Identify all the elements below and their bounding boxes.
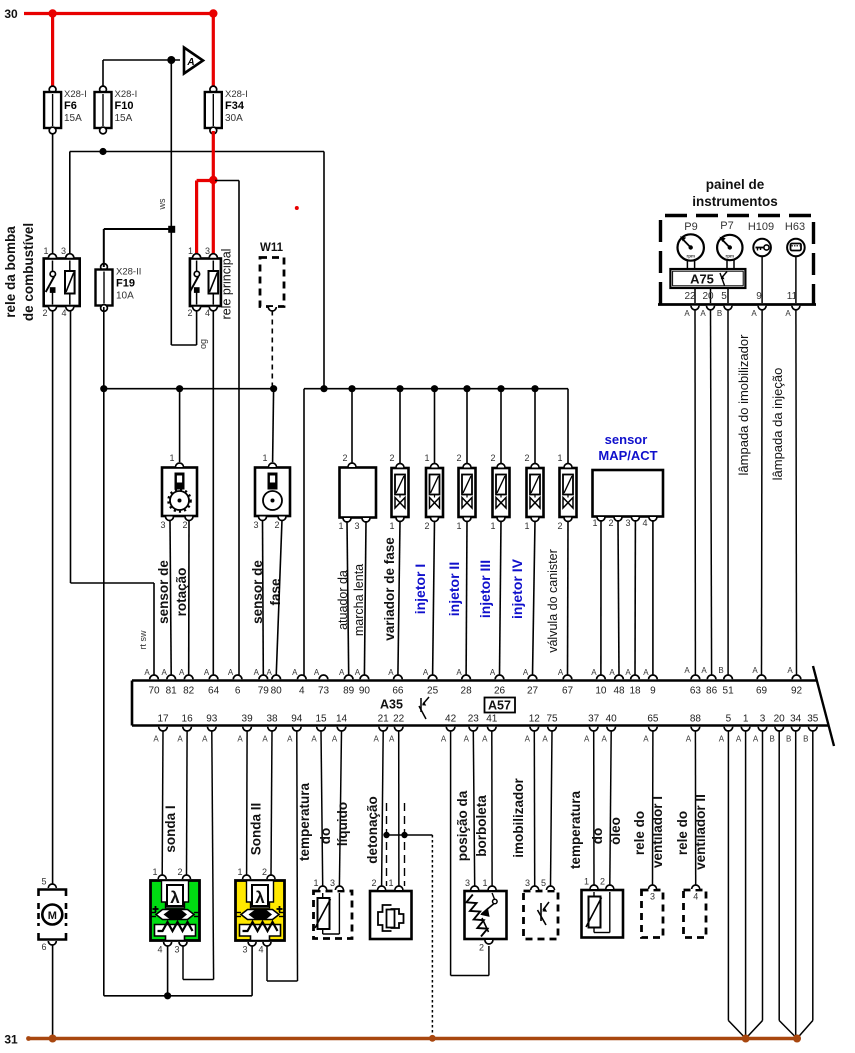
junction shield right: [401, 832, 407, 838]
wire bus388 to injetor III: [500, 389, 502, 463]
svg-text:90: 90: [359, 686, 371, 697]
svg-text:2: 2: [424, 521, 429, 531]
svg-text:A: A: [584, 735, 590, 744]
wire pin88 to rele ventilador II: [694, 731, 696, 886]
svg-text:A: A: [558, 668, 564, 677]
svg-text:4: 4: [693, 892, 698, 902]
svg-text:80: 80: [271, 686, 283, 697]
svg-text:2: 2: [456, 453, 461, 463]
svg-text:A: A: [204, 668, 210, 677]
svg-text:Sonda II: Sonda II: [249, 803, 264, 856]
junction bus388/W11: [270, 385, 277, 392]
fuse F34 30A: [210, 86, 217, 93]
wire ws vertical: [170, 60, 172, 229]
sensor posicao da borboleta (TPS): [465, 891, 507, 939]
relay rele do ventilador I: [642, 890, 664, 938]
wire rele bomba pin 2 to fuel pump: [52, 310, 54, 884]
wire injetor III to pin 26: [500, 521, 502, 677]
wire pin38 to sonda II pin 2: [271, 731, 272, 875]
svg-text:A: A: [751, 309, 757, 318]
wire bus y151: [70, 151, 324, 153]
svg-text:B: B: [718, 666, 723, 675]
wire P9 to A75: [686, 260, 688, 269]
svg-text:3: 3: [61, 246, 66, 256]
junction bus388/injetor IV: [531, 385, 538, 392]
svg-text:A: A: [602, 735, 608, 744]
svg-text:A: A: [643, 735, 649, 744]
svg-text:instrumentos: instrumentos: [692, 194, 778, 209]
svg-text:5: 5: [721, 291, 727, 302]
svg-text:rele do: rele do: [632, 811, 647, 855]
svg-text:25: 25: [427, 686, 439, 697]
svg-text:1: 1: [482, 878, 487, 888]
harness arrow right: [779, 1021, 797, 1039]
wire ws down to og corner: [170, 229, 172, 345]
svg-text:A: A: [464, 735, 470, 744]
junction sonda I pin 4: [164, 992, 171, 999]
svg-text:injetor II: injetor II: [446, 562, 462, 616]
svg-text:5: 5: [41, 877, 46, 887]
svg-text:21: 21: [378, 714, 390, 725]
svg-text:H109: H109: [748, 221, 774, 233]
svg-text:40: 40: [606, 714, 618, 725]
junction bus388/pin73: [320, 385, 327, 392]
svg-text:temperatura: temperatura: [568, 790, 583, 869]
svg-text:3: 3: [525, 878, 530, 888]
svg-text:injetor I: injetor I: [412, 564, 428, 615]
junction bus31 start: [26, 1036, 31, 1041]
wire rele principal frame to pin 6: [215, 180, 239, 182]
wire bus388 left: [104, 388, 274, 390]
svg-text:93: 93: [206, 714, 218, 725]
svg-text:A: A: [292, 668, 298, 677]
svg-text:A: A: [542, 735, 548, 744]
svg-text:P7: P7: [720, 220, 733, 232]
wire pin20 harness: [778, 731, 780, 1021]
wire MAP pin1 to pin 10: [600, 520, 602, 676]
svg-text:94: 94: [291, 714, 303, 725]
svg-text:A: A: [355, 668, 361, 677]
harness arrow left: [728, 1021, 745, 1039]
svg-text:10: 10: [595, 686, 607, 697]
wire pin5 harness: [727, 731, 729, 1021]
wire pin22 to detonacao pin 1: [398, 731, 400, 886]
wire bus388 to pin 4: [303, 389, 305, 676]
svg-text:rele do: rele do: [675, 811, 690, 855]
svg-text:imobilizador: imobilizador: [511, 778, 526, 858]
svg-text:3: 3: [174, 945, 179, 955]
wire A75 pin 22: [694, 288, 696, 303]
svg-text:A: A: [787, 666, 793, 675]
svg-text:88: 88: [690, 714, 702, 725]
fuse F19 10A: [101, 264, 108, 271]
svg-text:X28-I: X28-I: [64, 89, 87, 100]
module A75: [670, 269, 745, 288]
connector A35 top pins: [150, 675, 159, 679]
junction bus388/atuador: [348, 385, 355, 392]
svg-text:A: A: [701, 666, 707, 675]
svg-text:27: 27: [527, 686, 539, 697]
svg-text:79: 79: [258, 686, 270, 697]
sensor MAP/ACT B3: [593, 470, 664, 517]
svg-text:A: A: [684, 666, 690, 675]
svg-text:2: 2: [608, 518, 613, 528]
junction fuel pump on bus 31: [49, 1035, 57, 1043]
junction dot 30/F6: [48, 9, 56, 17]
wire variador to pin 66: [398, 521, 400, 677]
svg-text:37: 37: [588, 714, 600, 725]
svg-text:rotação: rotação: [174, 568, 189, 617]
svg-text:A: A: [332, 735, 338, 744]
svg-text:A: A: [287, 735, 293, 744]
svg-text:10A: 10A: [116, 291, 134, 302]
svg-text:1: 1: [743, 714, 749, 725]
wire sonda ground bus: [104, 995, 252, 997]
wire pin17 to sonda I pin 1: [161, 731, 164, 875]
svg-text:48: 48: [613, 686, 625, 697]
svg-text:A: A: [374, 735, 380, 744]
svg-text:λ: λ: [170, 888, 180, 907]
svg-text:1: 1: [524, 521, 529, 531]
svg-text:ws: ws: [157, 198, 167, 210]
svg-text:2: 2: [262, 867, 267, 877]
junction bus388/variador: [396, 385, 403, 392]
svg-text:A: A: [262, 735, 268, 744]
wire bus 30 (red): [24, 12, 214, 15]
svg-text:2: 2: [490, 453, 495, 463]
svg-text:A: A: [144, 668, 150, 677]
wire bus388 to injetor I: [434, 389, 436, 463]
wire pin1 harness: [745, 731, 747, 1037]
wire pin15 to temp liquido pin 1: [321, 731, 323, 886]
wire pin75 to imobilizador pin 5: [551, 731, 553, 886]
svg-text:4: 4: [299, 686, 305, 697]
wire bus151 to rele bomba pin 3: [69, 152, 71, 255]
svg-text:20: 20: [702, 291, 714, 302]
svg-text:X28-I: X28-I: [225, 89, 248, 100]
wire rele bomba pin 4 to pin 70: [70, 310, 72, 583]
wire MAP pin4 to pin 9: [652, 520, 654, 676]
svg-text:92: 92: [791, 686, 803, 697]
stray red dot: [295, 206, 299, 210]
svg-text:F34: F34: [225, 100, 245, 112]
junction ws/A: [167, 56, 175, 64]
svg-text:A: A: [686, 735, 692, 744]
wire sensor fase pin 3 to pin 79: [262, 520, 265, 676]
svg-text:12: 12: [529, 714, 541, 725]
wire sensor fase pin 2 to pin 80: [276, 520, 282, 676]
wire A75 pin 5: [727, 288, 729, 303]
wire pin39 to sonda II pin 1: [246, 731, 249, 875]
svg-text:A: A: [202, 735, 208, 744]
svg-text:31: 31: [4, 1033, 18, 1047]
wire pin94 to sonda II pin 4: [296, 731, 299, 981]
wire sonda II pin3 down: [251, 946, 253, 996]
svg-text:lâmpada do imobilizador: lâmpada do imobilizador: [736, 334, 751, 476]
wire 30 to F34 (red): [212, 14, 215, 89]
wire W11 to bus (dashed): [271, 311, 273, 388]
svg-text:23: 23: [468, 714, 480, 725]
svg-text:2: 2: [177, 867, 182, 877]
svg-text:P9: P9: [684, 221, 697, 233]
svg-text:2: 2: [389, 453, 394, 463]
wire bus 31 (brown): [27, 1037, 798, 1040]
svg-text:67: 67: [562, 686, 574, 697]
svg-text:A: A: [388, 668, 394, 677]
svg-text:2: 2: [342, 453, 347, 463]
wire rele principal pin 4 to pin 64: [212, 310, 214, 676]
svg-text:A: A: [525, 735, 531, 744]
svg-text:6: 6: [235, 686, 241, 697]
svg-text:A: A: [339, 668, 345, 677]
fuel pump M: [39, 890, 67, 897]
svg-text:3: 3: [160, 520, 165, 530]
injector injetor IV: [527, 468, 544, 517]
svg-text:temperatura: temperatura: [297, 782, 312, 861]
svg-text:A: A: [254, 668, 260, 677]
wire pin12 to imobilizador pin 3: [533, 731, 535, 886]
wire F10 to node A: [102, 60, 104, 87]
svg-text:F10: F10: [115, 100, 134, 112]
svg-text:MAP/ACT: MAP/ACT: [598, 448, 657, 463]
svg-text:M: M: [48, 910, 57, 922]
svg-text:51: 51: [723, 686, 735, 697]
svg-text:B: B: [770, 735, 775, 744]
svg-text:81: 81: [166, 686, 178, 697]
svg-text:H63: H63: [785, 221, 805, 233]
wire panel22 to pin 63: [694, 310, 696, 677]
svg-text:A: A: [311, 735, 317, 744]
wire sensor rotacao pin 2 to pin 82: [188, 520, 190, 676]
junction bus388/injetor II: [463, 385, 470, 392]
svg-text:A: A: [179, 668, 185, 677]
svg-text:1: 1: [43, 246, 48, 256]
junction harness left on bus 31: [742, 1035, 750, 1043]
svg-text:3: 3: [625, 518, 630, 528]
relay K2 rele principal: [190, 259, 221, 307]
shield detonacao dashed left: [386, 803, 388, 886]
svg-text:X28-II: X28-II: [116, 267, 141, 278]
svg-text:73: 73: [318, 686, 330, 697]
wire pin42 to borboleta pin 2: [450, 731, 452, 976]
svg-text:4: 4: [642, 518, 647, 528]
sensor de fase B2: [255, 468, 290, 517]
shield detonacao dashed right: [404, 803, 406, 886]
svg-text:75: 75: [546, 714, 558, 725]
module imobilizador: [524, 891, 559, 939]
wire pin37 to temp oleo pin 1: [593, 731, 595, 886]
wire bus151 corner down to pin 73: [323, 152, 325, 389]
svg-text:3: 3: [253, 520, 258, 530]
svg-text:2: 2: [479, 943, 484, 953]
svg-text:89: 89: [343, 686, 355, 697]
relay K1 rele da bomba de combustivel: [44, 259, 80, 307]
svg-text:λ: λ: [255, 888, 265, 907]
wire injetor IV to pin 27: [533, 521, 536, 677]
relay rele do ventilador II: [684, 890, 707, 938]
svg-text:6: 6: [41, 942, 46, 952]
svg-text:2: 2: [371, 878, 376, 888]
junction bus388/sensor rotacao: [176, 385, 183, 392]
sensor temperatura do liquido: [314, 891, 353, 939]
svg-text:detonação: detonação: [365, 796, 380, 864]
svg-text:A35: A35: [380, 698, 403, 712]
wire MAP pin2 to pin 48: [618, 520, 619, 676]
svg-text:A75: A75: [690, 272, 714, 287]
svg-text:1: 1: [424, 453, 429, 463]
svg-text:34: 34: [790, 714, 802, 725]
svg-text:painel de: painel de: [706, 177, 765, 192]
svg-text:28: 28: [461, 686, 473, 697]
junction dot 30/F34: [209, 9, 217, 17]
svg-text:3: 3: [242, 945, 247, 955]
svg-text:A: A: [753, 735, 759, 744]
svg-text:3: 3: [330, 878, 335, 888]
svg-text:42: 42: [445, 714, 457, 725]
sensor sonda I (lambda probe 1): [151, 881, 200, 941]
svg-text:A: A: [389, 735, 395, 744]
svg-text:do: do: [318, 828, 333, 845]
svg-text:30: 30: [4, 7, 18, 21]
svg-text:F6: F6: [64, 100, 77, 112]
svg-text:lâmpada da injeção: lâmpada da injeção: [770, 368, 785, 481]
svg-text:A: A: [591, 668, 597, 677]
svg-text:1: 1: [188, 246, 193, 256]
svg-text:64: 64: [208, 686, 220, 697]
svg-text:17: 17: [157, 714, 169, 725]
wire injetor II to pin 28: [465, 521, 468, 677]
svg-text:A: A: [441, 735, 447, 744]
svg-text:rt sw: rt sw: [138, 630, 148, 649]
svg-text:sensor de: sensor de: [156, 560, 171, 624]
svg-text:ventilador II: ventilador II: [693, 794, 708, 870]
svg-text:A: A: [153, 735, 159, 744]
sensor sonda II (lambda probe 2): [236, 881, 285, 941]
svg-text:1: 1: [389, 521, 394, 531]
svg-text:3: 3: [465, 878, 470, 888]
junction bus388/injetor I: [431, 385, 438, 392]
actuator atuador da marcha lenta: [340, 468, 377, 518]
svg-text:1: 1: [557, 453, 562, 463]
svg-text:A: A: [267, 668, 273, 677]
svg-text:A: A: [177, 735, 183, 744]
svg-text:F19: F19: [116, 278, 135, 290]
svg-text:2: 2: [524, 453, 529, 463]
wire A75 pin 20: [710, 288, 712, 303]
svg-text:3: 3: [760, 714, 766, 725]
svg-text:1: 1: [338, 521, 343, 531]
svg-text:1: 1: [592, 518, 597, 528]
wire og to rele principal pin 2: [171, 344, 196, 346]
svg-text:posição da: posição da: [455, 790, 470, 861]
wire pin40 to temp oleo pin 2: [610, 731, 611, 886]
svg-text:rele principal: rele principal: [220, 249, 234, 320]
svg-text:69: 69: [756, 686, 768, 697]
svg-text:3: 3: [205, 246, 210, 256]
wire bus388 to sensor fase pin 1: [273, 389, 274, 462]
wire bus388 right: [304, 388, 568, 390]
svg-text:A: A: [523, 668, 529, 677]
wire bus388 to variador pin 2: [399, 389, 401, 463]
svg-text:63: 63: [690, 686, 702, 697]
svg-text:A: A: [752, 666, 758, 675]
wire H63 pin 11: [795, 256, 797, 303]
svg-text:15: 15: [315, 714, 327, 725]
svg-text:de combustível: de combustível: [21, 223, 36, 321]
wire pin14 to temp liquido pin 3: [339, 731, 341, 886]
svg-text:W11: W11: [260, 242, 284, 254]
connector A35 body: [132, 679, 817, 682]
svg-text:A: A: [719, 735, 725, 744]
svg-text:A: A: [162, 668, 168, 677]
svg-text:sensor: sensor: [605, 432, 648, 447]
wire injetor I to pin 25: [433, 521, 435, 677]
svg-text:A: A: [237, 735, 243, 744]
wire pin23 to borboleta pin 3: [473, 731, 474, 886]
svg-text:sonda I: sonda I: [163, 805, 178, 852]
wire bus388 to injetor II: [466, 389, 468, 463]
svg-text:4: 4: [61, 308, 66, 318]
junction shield on bus 31: [429, 1035, 436, 1042]
label A57: [485, 698, 516, 713]
svg-text:14: 14: [336, 714, 348, 725]
svg-text:injetor IV: injetor IV: [509, 558, 525, 619]
injector injetor II: [459, 468, 476, 517]
wire pin16 to sonda I pin 2: [186, 731, 189, 875]
svg-text:A: A: [609, 668, 615, 677]
svg-text:22: 22: [684, 291, 696, 302]
svg-text:70: 70: [148, 686, 160, 697]
valve valvula do canister Y2: [560, 468, 577, 517]
wire bus388 to valvula canister: [567, 389, 569, 463]
svg-text:A: A: [785, 309, 791, 318]
svg-text:86: 86: [706, 686, 718, 697]
wire F6 to rele bomba pin 1: [52, 134, 54, 255]
svg-text:fase: fase: [268, 578, 283, 606]
wire pin65 to rele ventilador I: [652, 731, 654, 886]
svg-text:A: A: [490, 668, 496, 677]
svg-text:marcha lenta: marcha lenta: [352, 564, 366, 636]
svg-text:rele da bomba: rele da bomba: [3, 226, 18, 318]
junction harness right on bus 31: [793, 1035, 801, 1043]
svg-text:A: A: [186, 57, 194, 68]
wire atuador pin 1 to pin 89: [347, 521, 349, 676]
svg-text:A: A: [684, 309, 690, 318]
svg-text:39: 39: [242, 714, 254, 725]
sensor temperatura do oleo: [582, 890, 624, 938]
svg-text:66: 66: [392, 686, 404, 697]
wire sonda I pin4 down: [167, 946, 169, 996]
wire F19 down to sonda bus: [103, 307, 105, 996]
svg-text:4: 4: [205, 308, 210, 318]
junction bus388/injetor III: [497, 385, 504, 392]
svg-text:15A: 15A: [64, 113, 82, 124]
wire bus388 to atuador pin 2: [351, 389, 353, 463]
wire ws to F19: [104, 228, 172, 230]
svg-text:A: A: [736, 735, 742, 744]
wire pin41 to borboleta pin 1: [491, 731, 493, 886]
svg-text:B: B: [786, 735, 791, 744]
svg-text:2: 2: [182, 520, 187, 530]
svg-text:35: 35: [807, 714, 819, 725]
wire bus388 to injetor IV: [534, 389, 536, 463]
svg-text:A: A: [482, 735, 488, 744]
wire panel9 to pin 69 lampada do imobilizador: [761, 310, 764, 677]
svg-text:A: A: [228, 668, 234, 677]
svg-text:og: og: [198, 339, 208, 349]
wire fuel pump to bus 31: [52, 945, 54, 1038]
junction bus388/F19 line: [100, 385, 107, 392]
